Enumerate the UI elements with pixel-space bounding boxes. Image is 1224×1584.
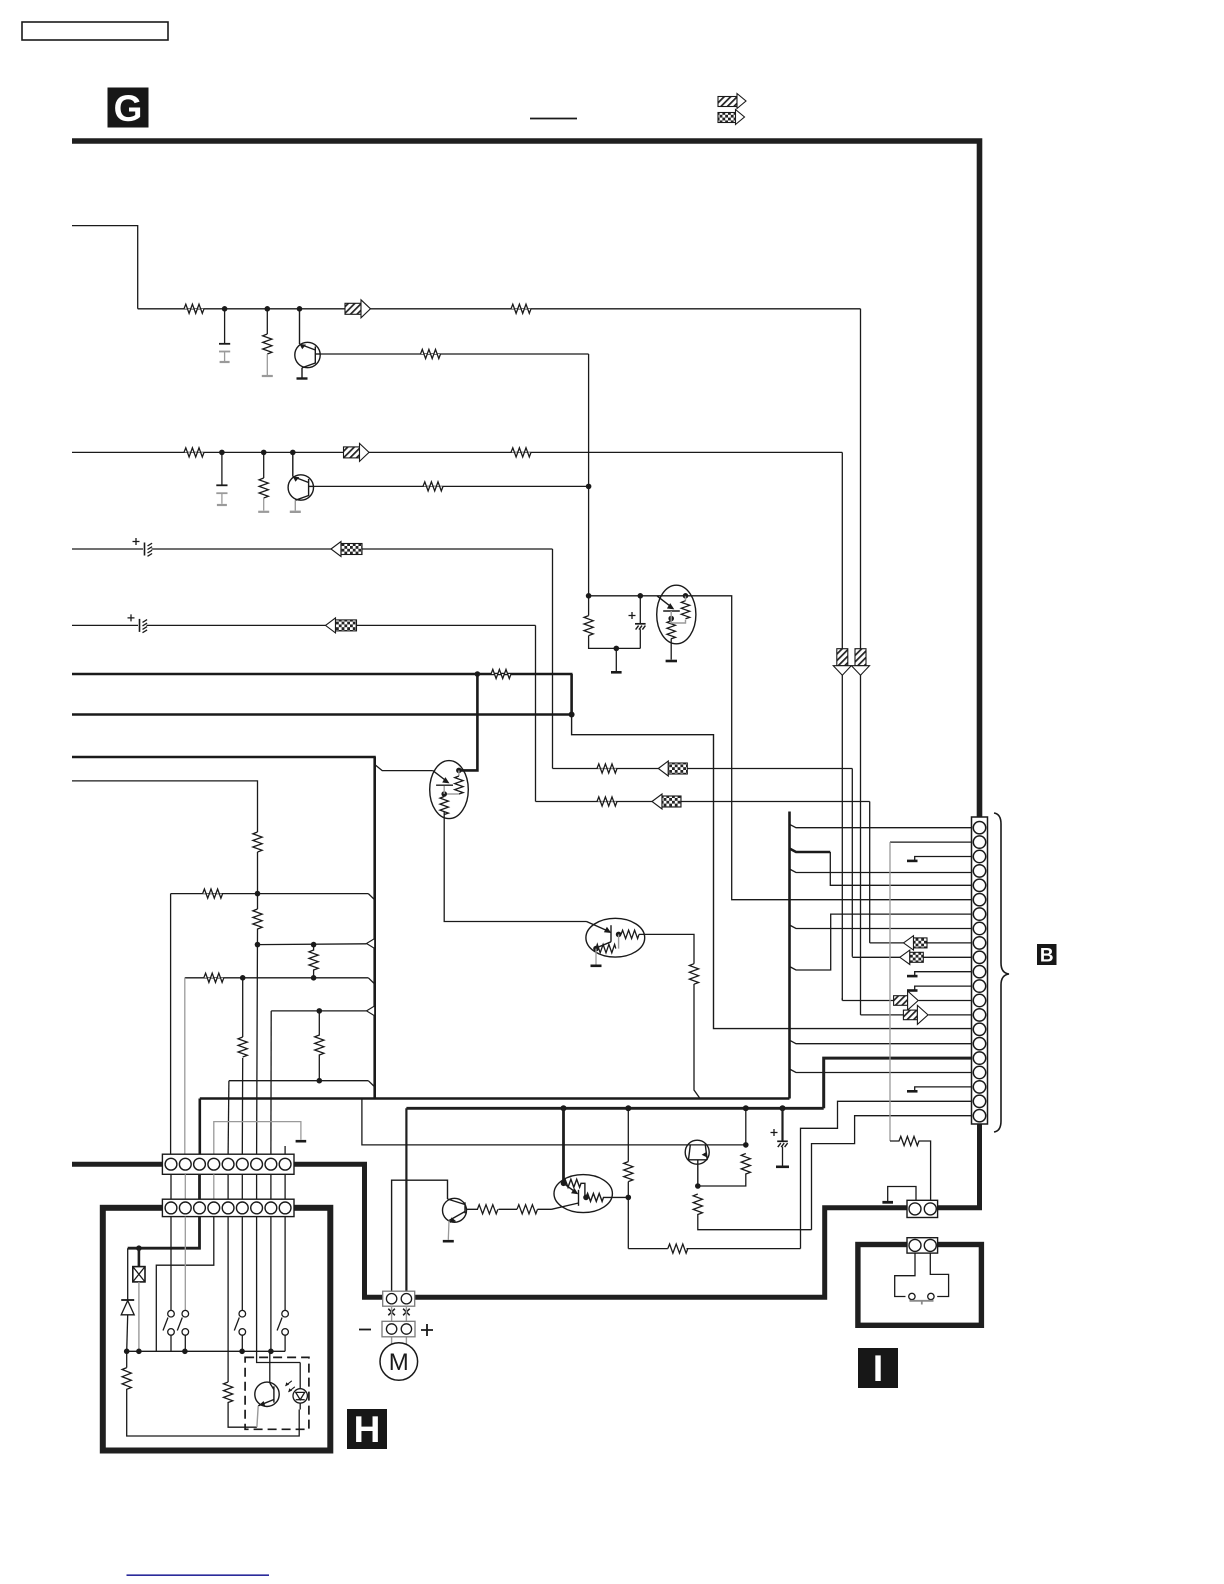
- node dot: [136, 1349, 142, 1355]
- thick pin17 wire: [824, 1058, 972, 1108]
- minus label: [359, 1329, 371, 1331]
- pin4 jog: [156, 1217, 214, 1352]
- node dot: [311, 942, 317, 948]
- bottom reference line: [127, 1574, 270, 1576]
- pin7 lead to LED anode: [257, 1217, 301, 1363]
- node dot: [268, 1349, 274, 1355]
- pin5 wire from thick exit: [830, 852, 971, 885]
- hanger wire y=1144 from rail at x=361.9: [362, 1099, 746, 1145]
- thick wire into connector row1: [72, 1162, 163, 1167]
- node dot: [311, 975, 317, 981]
- capacitor C549 polarized series: [133, 538, 153, 556]
- brace right of connector B: [994, 813, 1009, 1132]
- rail drop to connector pin3: [199, 1099, 202, 1156]
- plus label: [421, 1324, 433, 1336]
- node dot: [290, 450, 296, 456]
- wire Q2 emitter to right: [314, 485, 589, 487]
- connector CN-M2: [382, 1321, 415, 1337]
- electrolytic cap at x=782.5: [771, 1108, 790, 1167]
- ground stub pin12: [907, 986, 972, 990]
- down arrow on x=842 wire: [833, 649, 851, 676]
- svg-text:H: H: [354, 1409, 381, 1450]
- wire down right of stage2: [841, 452, 843, 1000]
- transistor TrC (digital, vertical oval): [657, 585, 696, 644]
- signal arrow right pin13: [894, 991, 919, 1010]
- node dot: [124, 1349, 130, 1355]
- node dot bus1: [475, 671, 481, 677]
- wire W2 y=944.6: [258, 943, 367, 946]
- x marks: [388, 1309, 409, 1316]
- resistor R2a to ground: [262, 309, 273, 376]
- box I border: [858, 1245, 982, 1326]
- thick bus from G across top and down right side: [72, 141, 980, 817]
- wire W1 drop to pin1: [170, 894, 172, 1155]
- node dot: [255, 942, 261, 948]
- node dot: [638, 593, 644, 599]
- down arrow on x=861 wire: [852, 649, 870, 676]
- node dot: [743, 1142, 749, 1148]
- wire down right of stage1: [860, 309, 862, 1015]
- svg-text:M: M: [389, 1349, 409, 1376]
- QH collector wire up/left to motor conn pin1: [392, 1180, 448, 1291]
- connector CN-M1: [383, 1291, 415, 1306]
- ground stub: [611, 648, 622, 672]
- bottom wire inside H: [127, 1350, 285, 1352]
- resistor R3a: [511, 304, 531, 313]
- resistor R2b to ground: [258, 452, 269, 511]
- thick drop to TrF collector: [562, 1108, 565, 1183]
- pin7 wire from exit jog: [790, 914, 972, 970]
- wire stage1 input: [72, 226, 138, 309]
- resistor to CN3 pin2: [890, 1136, 931, 1200]
- connector CN2: [162, 1199, 294, 1216]
- resistor on W1: [203, 889, 223, 898]
- capacitor C625 polarized series: [128, 614, 148, 632]
- TrD emitter ground: [591, 949, 602, 966]
- node dot bus2 end: [569, 712, 575, 718]
- pin16 wire from chamfer: [790, 1040, 972, 1044]
- transistor TrD (digital, oval): [586, 918, 645, 957]
- signal arrow left pin9: [904, 936, 928, 950]
- leaf switch inside I: [895, 1253, 949, 1304]
- wire jog from bus junction to x=713.5: [572, 715, 972, 1029]
- pin8 wire from chamfer: [790, 925, 972, 929]
- resistor R4a: [421, 349, 441, 358]
- resistor between W4 and W5: [315, 1011, 324, 1081]
- TrC emitter ground: [666, 639, 677, 662]
- photo LED: [293, 1363, 307, 1410]
- switch SW4: [277, 1217, 288, 1352]
- short line top center: [530, 118, 577, 120]
- wire W3 drop to pin2 (gray): [184, 978, 186, 1155]
- pin5 chain to photocoupler emitter: [224, 1217, 257, 1428]
- resistor R3b: [511, 448, 531, 457]
- connector CN1: [162, 1154, 294, 1174]
- chamfer entry base of Tr-C2: [375, 765, 433, 771]
- resistor chain x=745.8: [698, 1108, 751, 1186]
- signal arrow stage1: [345, 300, 371, 318]
- svg-text:B: B: [1040, 946, 1054, 967]
- signal arrow stage2: [344, 443, 370, 461]
- wire 549: [72, 549, 553, 769]
- drop to TrF output resistor: [624, 1108, 633, 1248]
- light arrows: [285, 1381, 294, 1392]
- TrC collector wire right and down to pin6: [686, 596, 972, 900]
- wire W5 y=1080.7: [229, 1080, 368, 1082]
- vertical x=242.7 to pin6: [241, 978, 243, 1155]
- node dot: [780, 1105, 786, 1111]
- ground at 2pin connector: [882, 1187, 916, 1203]
- resistor on bus1: [491, 669, 511, 678]
- block bottom rail: [200, 1097, 790, 1100]
- transistor TrF (digital, oval): [552, 1175, 629, 1213]
- node dot: [261, 450, 267, 456]
- wire Q1 emitter to right: [320, 353, 588, 355]
- resistor 588 down: [584, 596, 640, 649]
- wire 625: [72, 625, 536, 801]
- signal arrow left 549: [331, 542, 362, 557]
- node dot: [586, 593, 592, 599]
- pin13 vert from wire-452: [841, 998, 843, 1001]
- wire1 y=768.5: [553, 764, 853, 957]
- pin2 wire: [890, 841, 972, 843]
- pin20 staircase wire: [801, 1101, 972, 1248]
- node dot: [255, 891, 261, 897]
- resistor on W3: [204, 973, 224, 982]
- title box (empty): [22, 22, 168, 40]
- section label G: [108, 88, 149, 130]
- capacitor C1b: [216, 452, 227, 505]
- wire W5 drop to pin5: [227, 1081, 230, 1155]
- resistor between W2 and W3: [309, 945, 318, 978]
- resistor R1b: [184, 448, 204, 457]
- connector CN3 (2pin): [907, 1200, 938, 1217]
- signal arrow top 1: [718, 94, 746, 109]
- box H border: [103, 1208, 330, 1451]
- svg-text:G: G: [114, 88, 143, 129]
- wire W4 y=1010.9: [271, 1010, 366, 1012]
- node dot: [239, 1349, 245, 1355]
- ground stub pin19: [907, 1087, 972, 1091]
- pin8 lead to photocoupler collector: [270, 1217, 271, 1383]
- section label I: [858, 1348, 898, 1389]
- pin13 wire with right arrow: [842, 1000, 971, 1002]
- wire stage1 main: [138, 308, 861, 310]
- node dot: [695, 1183, 701, 1189]
- transistor QG: [685, 1140, 709, 1186]
- fuse F1: [133, 1248, 145, 1351]
- switch SW2: [177, 1217, 188, 1352]
- rail drop to motor connector pin2: [405, 1108, 407, 1291]
- TrC2 emitter wire down to TrD: [444, 812, 586, 922]
- QH emitter ground: [443, 1221, 454, 1242]
- ground stub pin11: [907, 972, 972, 976]
- node dot: [222, 306, 228, 312]
- pin10 wire with left arrow: [852, 956, 971, 958]
- block right edge: [788, 812, 791, 1099]
- pin2 gray drop to resistor: [889, 842, 891, 1141]
- left edge arrow entry w4: [367, 1006, 375, 1016]
- thick bus below connector B to 2pin connector: [938, 1124, 980, 1208]
- wire W3 y=977.8: [185, 977, 368, 979]
- transistor Q2: [288, 452, 313, 511]
- switch SW1: [163, 1217, 174, 1352]
- transistor TrC2 (digital, oval): [430, 761, 469, 819]
- wire 1248.6: [628, 1248, 800, 1250]
- thick lead pin3 down: [128, 1217, 200, 1249]
- node dot: [625, 1105, 631, 1111]
- pin9 stub above connector: [284, 1146, 286, 1155]
- signal arrow left pin10: [900, 950, 924, 964]
- node dot: [614, 646, 620, 652]
- transistor QH: [443, 1198, 467, 1223]
- section label H: [347, 1409, 387, 1450]
- pin9 wire with left arrow: [870, 942, 972, 944]
- gray leads: [392, 1306, 407, 1344]
- switch SW3: [234, 1217, 245, 1352]
- diode D1: [121, 1248, 134, 1351]
- left edge chamfer w1: [368, 894, 374, 900]
- resistor R4b: [423, 482, 443, 491]
- node dot: [136, 1245, 142, 1251]
- node dot: [561, 1105, 567, 1111]
- connector CN4 (2pin): [907, 1238, 938, 1253]
- signal arrow top 2: [718, 110, 745, 125]
- resistor x=257.5 (2nd): [253, 909, 262, 929]
- bus wire 1: [72, 673, 573, 676]
- wire2 y=801.5: [536, 797, 870, 943]
- node dot: [182, 1349, 188, 1355]
- left edge arrow entry w2: [367, 939, 375, 949]
- resistor on wire 1248.6: [668, 1244, 688, 1253]
- pin4 wire from chamfer: [790, 869, 972, 873]
- signal arrow left 625: [326, 618, 357, 633]
- bus1 drop to bus2: [570, 674, 573, 715]
- signal arrow left w768: [658, 761, 687, 776]
- resistor R1a: [184, 304, 204, 313]
- QG lower resistor to wire 1229.7: [693, 1194, 811, 1230]
- left edge chamfer w5: [368, 1081, 374, 1087]
- block left edge: [373, 757, 376, 1099]
- thick feed from bus1: [459, 674, 478, 770]
- left resistor to LED cathode loop: [122, 1351, 299, 1436]
- photocoupler dashed box: [245, 1357, 309, 1429]
- thick exit to pin5: [790, 849, 831, 853]
- wire W1 y=893.6: [171, 893, 369, 895]
- wire W4 drop to pin8: [270, 1011, 272, 1155]
- pin1 wire from chamfer: [790, 824, 972, 827]
- node dot: [317, 1008, 323, 1014]
- gray jumper to pin4 with ground: [214, 1122, 306, 1155]
- capacitor C1a: [219, 309, 230, 362]
- node dot emitter junction: [586, 484, 592, 490]
- vertical x=257.5 to connector pin7: [256, 852, 259, 1155]
- inter-connector verticals: [171, 1174, 285, 1199]
- node dot TrF out: [626, 1195, 632, 1201]
- vertical from Q1 emitter line down: [588, 354, 590, 596]
- pin14 wire with right arrow: [861, 1014, 972, 1016]
- resistor x=242.7: [238, 1037, 247, 1057]
- signal arrow left w801: [652, 794, 681, 809]
- photo transistor QP: [255, 1382, 279, 1427]
- rail: [406, 1107, 823, 1110]
- section label B: [1037, 944, 1057, 967]
- node dot: [240, 975, 246, 981]
- node dot: [265, 306, 271, 312]
- motor M: [380, 1343, 418, 1381]
- node dot: [297, 306, 303, 312]
- node dot: [219, 450, 225, 456]
- bus wire 3: [72, 756, 376, 759]
- wire y=596: [589, 595, 686, 597]
- wire y=781 from left: [72, 781, 258, 832]
- node dot: [317, 1078, 323, 1084]
- signal arrow right pin14: [903, 1005, 928, 1024]
- TrD collector wire right then down through resistor to rail: [639, 934, 700, 1098]
- left edge chamfer w3: [368, 978, 374, 984]
- bus wire 2: [72, 713, 572, 716]
- pin21 staircase wire: [812, 1116, 972, 1230]
- base wire left of TrF with two resistors: [466, 1205, 551, 1214]
- ground stub pin3: [907, 857, 972, 861]
- wire stage2 main: [72, 451, 842, 453]
- thick wire from row1 right to bus drop: [294, 1164, 908, 1297]
- capacitor C596 polarized: [629, 596, 646, 649]
- node dot: [743, 1105, 749, 1111]
- pin18 wire from chamfer: [790, 1069, 972, 1073]
- transistor Q1: [295, 309, 320, 379]
- svg-text:I: I: [873, 1348, 883, 1389]
- resistor on x=257.5: [253, 832, 262, 852]
